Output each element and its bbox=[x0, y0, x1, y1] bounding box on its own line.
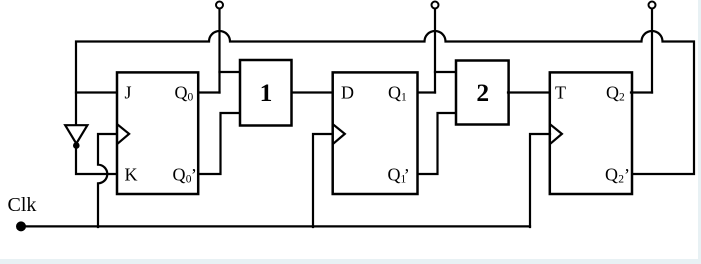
inverter U4 bbox=[65, 125, 87, 143]
wire: FF3 clock from Clk bus bbox=[530, 134, 550, 227]
svg-text:K: K bbox=[125, 165, 138, 185]
svg-text:Q: Q bbox=[175, 83, 188, 103]
wire: Q1 output bbox=[418, 91, 435, 93]
clock input symbol FF2 bbox=[334, 125, 345, 144]
flip-flop U3 (T) bbox=[550, 72, 632, 194]
svg-text:0: 0 bbox=[188, 92, 194, 104]
wire: top feedback bus with hops, from left vertical to Q2' bbox=[76, 31, 694, 174]
svg-text:’: ’ bbox=[191, 165, 197, 185]
wire: FF1 clock from Clk bus with hop over K wire bbox=[98, 134, 116, 227]
terminal circle T1 bbox=[216, 2, 223, 9]
terminal circle T2 bbox=[432, 2, 439, 9]
right edge strip bbox=[698, 0, 701, 264]
svg-text:2: 2 bbox=[476, 78, 489, 107]
wire: Q0' to box 1 lower input bbox=[198, 113, 240, 174]
node Clk dot bbox=[16, 221, 26, 231]
wire: box 2 output to T input bbox=[508, 91, 550, 93]
bottom bar bbox=[0, 259, 701, 264]
wire: branch to box 2 upper input bbox=[435, 71, 456, 73]
wire: box 1 output to D input bbox=[292, 91, 333, 93]
flip-flop U2 (D) bbox=[333, 72, 418, 194]
wire: FF2 clock from Clk bus bbox=[313, 134, 333, 227]
clock input symbol FF3 bbox=[551, 125, 562, 144]
wire: Q1' to box 2 lower input bbox=[418, 113, 456, 174]
svg-text:1: 1 bbox=[260, 78, 273, 107]
svg-text:’: ’ bbox=[404, 165, 410, 185]
wire: T3 vertical down to Q2 bbox=[651, 9, 653, 93]
wire: T1 vertical down to Q0 bbox=[218, 9, 220, 93]
svg-text:Clk: Clk bbox=[8, 194, 37, 216]
svg-text:D: D bbox=[341, 83, 354, 103]
wire: Q0 output bbox=[198, 91, 220, 93]
terminal circle T3 bbox=[649, 2, 656, 9]
svg-text:Q: Q bbox=[173, 165, 186, 185]
flip-flop U1 (JK) bbox=[117, 72, 198, 194]
svg-text:Q: Q bbox=[388, 165, 401, 185]
box 2 bbox=[456, 61, 509, 125]
svg-text:’: ’ bbox=[624, 165, 630, 185]
svg-text:T: T bbox=[555, 83, 566, 103]
wire: J input branch bbox=[76, 91, 116, 93]
wire: branch to box 1 upper input bbox=[220, 71, 241, 73]
svg-text:Q: Q bbox=[606, 83, 619, 103]
svg-text:1: 1 bbox=[401, 92, 407, 104]
wire: Clk bus bbox=[21, 225, 530, 227]
clock input symbol FF1 bbox=[118, 125, 129, 144]
svg-text:2: 2 bbox=[619, 92, 625, 104]
node junction dot at inverter output bbox=[74, 143, 78, 147]
wire: Q2 output bbox=[631, 91, 652, 93]
wire: T2 vertical down to Q1 bbox=[434, 9, 436, 93]
svg-text:J: J bbox=[125, 83, 132, 103]
svg-text:Q: Q bbox=[605, 165, 618, 185]
wire: inverter output to K input bbox=[76, 144, 116, 174]
box 1 bbox=[240, 60, 292, 126]
svg-text:Q: Q bbox=[388, 83, 401, 103]
